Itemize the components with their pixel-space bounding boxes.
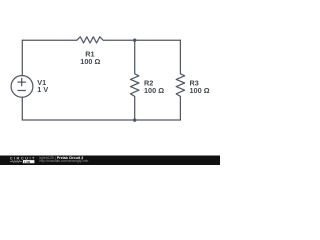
voltage source V1 circle (11, 76, 33, 98)
wire left vertical from top corner to V1 top (21, 40, 23, 75)
svg-text:100 Ω: 100 Ω (80, 57, 100, 66)
footer black bar (0, 156, 220, 166)
svg-text:http://circuitlab.com/cexsvrg6: http://circuitlab.com/cexsvrg6j7vbb (40, 159, 89, 163)
svg-text:100 Ω: 100 Ω (190, 86, 210, 95)
node junction dot top (133, 39, 136, 42)
V1 plus sign (18, 78, 25, 85)
resistor R2 branch with zigzag (131, 40, 139, 120)
CircuitLab logo LAB chip (23, 160, 35, 163)
CircuitLab logo resistor zigzag (10, 161, 22, 163)
svg-text:CIRCUIT: CIRCUIT (10, 156, 36, 161)
svg-text:LAB: LAB (24, 160, 30, 164)
resistor R3 branch with zigzag (176, 40, 184, 120)
wire top-left to R1 and R1 zigzag to top-right corner (22, 37, 180, 43)
svg-text:100 Ω: 100 Ω (144, 86, 164, 95)
V1 minus sign (18, 90, 25, 92)
wire V1 bottom to bottom-left corner (21, 97, 23, 120)
svg-text:1 V: 1 V (37, 85, 48, 94)
wire bottom horizontal (22, 119, 180, 121)
node junction dot bottom (133, 118, 136, 121)
